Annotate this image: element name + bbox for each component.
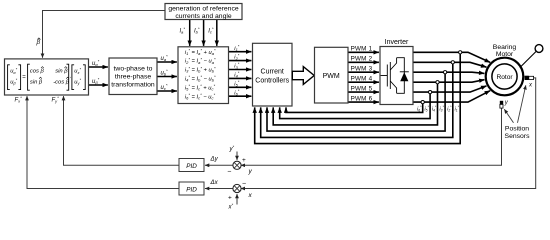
junction node on phase line 4 [436,81,439,84]
svg-text:−: − [227,168,231,175]
svg-text:-cos β: -cos β [53,79,70,85]
svg-text:PWM 4: PWM 4 [351,76,373,83]
wire PWM 4 signal [348,81,379,83]
block: force/voltage transformation matrix [5,59,89,95]
transistor IGBT inside inverter [381,58,405,94]
bearing motor stator (outer circle) [486,58,524,96]
block: PID controller (y axis) [179,159,204,172]
wire ua* two-phase box to equation box [157,61,177,63]
wire delta-y from summing junction S1 to PID [205,164,233,166]
svg-text:Δy: Δy [210,156,219,163]
junction node on phase line 6 [421,101,424,104]
block: PID controller (x axis) [179,182,204,195]
svg-text:Rotor: Rotor [496,74,513,81]
svg-text:PWM 5: PWM 5 [351,85,373,92]
svg-text:Motor: Motor [496,51,514,58]
wire delta-x from summing junction S2 to PID [205,188,233,190]
wire PWM 6 signal [348,101,379,103]
wire inverter phase line 4 to motor [413,80,485,83]
svg-text:=: = [22,75,26,81]
wire i4* equation box to current controllers [229,77,252,79]
svg-text:cos β: cos β [30,69,45,75]
wire PWM 1 signal [348,51,379,53]
wire i6* equation box to current controllers [229,95,252,97]
wire Ia* from generation box down to equation box [189,20,191,46]
svg-text:Current: Current [261,69,284,76]
wire inverter phase line 3 to motor [413,72,484,73]
svg-text:−: − [242,181,246,188]
svg-text:generation of reference: generation of reference [168,6,239,13]
wire uc* two-phase box to equation box [157,90,177,92]
wire i1* equation box to current controllers [229,51,252,53]
block: two-phase to three-phase transformation [109,58,157,95]
svg-text:two-phase to: two-phase to [114,66,153,73]
wire inverter phase line 5 to motor [413,86,487,92]
svg-text:sin β: sin β [30,79,43,85]
svg-text:Position: Position [505,125,529,132]
pointer line to y sensor [504,109,513,123]
svg-text:PWM: PWM [323,73,340,80]
wire Ib* from generation box down to equation box [203,20,205,46]
encoder circle [535,45,543,53]
svg-text:sin β: sin β [55,69,68,75]
junction node on phase line 5 [429,91,432,94]
svg-text:β: β [36,39,41,46]
svg-text:PWM 2: PWM 2 [351,56,373,63]
svg-text:PID: PID [186,163,197,170]
wire inverter phase line 2 to motor [413,62,487,67]
summing junction S2 [233,184,241,192]
wire current feedback i1 from tap to current controllers [255,52,461,143]
wire x position feedback from x sensor to summing junction S2 [241,78,536,189]
pointer line to x sensor [518,85,526,123]
svg-text:PID: PID [186,186,197,193]
junction node on phase line 1 [459,51,462,54]
junction node on phase line 2 [451,61,454,64]
wire i2* equation box to current controllers [229,60,252,62]
wire u_alpha* matrix box to two-phase box [89,66,108,68]
wire i5* equation box to current controllers [229,86,252,88]
svg-text:+: + [242,157,246,164]
wire PWM 2 signal [348,61,379,63]
svg-text:PWM 6: PWM 6 [351,95,373,102]
wire u_beta* matrix box to two-phase box [89,84,108,86]
diode inside inverter [400,72,408,81]
wire inverter phase line 1 to motor [413,52,490,62]
summing junction S1 [233,161,241,169]
block: PWM [315,47,349,103]
x position sensor [525,76,529,80]
svg-text:transformation: transformation [111,82,155,89]
wire F_x* from PID to matrix box [27,96,179,188]
svg-text:+: + [228,195,232,202]
wire current feedback i3 from tap to current controllers [267,72,445,131]
junction node on phase line 3 [444,71,447,74]
rotor (inner circle) [492,64,517,89]
block: reference current equations [178,47,229,104]
svg-text:Inverter: Inverter [385,39,409,46]
wire Ic* from generation box down to equation box [216,20,218,46]
wire current feedback i4 from tap to current controllers [273,82,437,125]
shaft line to encoder [520,51,537,68]
wire y position feedback from y sensor to summing junction S1 [241,108,502,165]
svg-text:Bearing: Bearing [493,44,517,51]
block: inverter with IGBT symbol [380,39,413,105]
wire inverter phase line 6 to motor [413,91,490,102]
wire F_y* from PID to matrix box [64,96,180,165]
svg-text:·: · [69,75,71,81]
wire current feedback i2 from tap to current controllers [261,62,453,137]
wire PWM 3 signal [348,71,379,73]
wire current feedback i5 from tap to current controllers [280,92,430,119]
svg-text:Sensors: Sensors [505,133,531,140]
wire current feedback i6 from tap to current controllers [286,102,423,112]
svg-text:currents and angle: currents and angle [175,13,232,20]
block arrow from current controllers to PWM [292,67,314,85]
svg-text:PWM 3: PWM 3 [351,66,373,73]
wire beta-hat feedback from generation box to matrix box [43,11,166,58]
block: current controllers [253,43,293,106]
y position sensor [500,101,503,104]
svg-text:Controllers: Controllers [255,78,289,85]
wire ub* two-phase box to equation box [157,76,177,78]
wire i3* equation box to current controllers [229,69,252,71]
svg-text:three-phase: three-phase [115,74,151,81]
wire x* reference into S2 [236,194,238,205]
wire PWM 5 signal [348,91,379,93]
svg-text:PWM 1: PWM 1 [351,46,373,53]
wire y* reference into S1 [236,152,238,161]
block: generation of reference currents and angle [165,4,242,21]
svg-text:Δx: Δx [210,179,219,186]
